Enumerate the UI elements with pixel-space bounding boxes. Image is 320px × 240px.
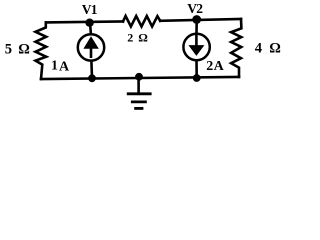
ground bar 3: [136, 107, 142, 110]
current source I1 arrow shaft: [90, 47, 93, 57]
junction dot ground node: [135, 73, 143, 81]
resistor 5 ohm (left vertical zigzag): [36, 22, 47, 79]
resistor 2 ohm (horizontal zigzag): [123, 16, 160, 27]
current source I1 circle: [78, 34, 104, 60]
svg-text:Ω: Ω: [18, 42, 30, 58]
wire top right segment to corner: [160, 19, 241, 21]
svg-text:A: A: [214, 59, 225, 74]
ground bar 2: [132, 101, 145, 104]
current source I2 circle: [183, 34, 209, 60]
current source I2 arrowhead (down): [188, 45, 204, 56]
current source I1 arrowhead (up): [83, 36, 98, 48]
svg-text:Ω: Ω: [269, 40, 281, 56]
svg-text:1: 1: [51, 59, 58, 74]
wire bottom: [41, 77, 239, 79]
svg-text:A: A: [59, 60, 70, 75]
svg-text:2: 2: [127, 31, 133, 45]
ground stem: [137, 77, 140, 94]
current source I2 arrow shaft: [195, 35, 198, 46]
wire top (V1 left segment to 2-ohm resistor): [46, 20, 123, 23]
node V2 dot: [192, 15, 201, 24]
svg-text:V2: V2: [187, 1, 203, 16]
wire V2 to source I2 top lead: [195, 20, 198, 34]
ground bar 1: [128, 92, 150, 95]
wire V1 to source I1 top lead: [89, 22, 93, 34]
resistor 4 ohm (right vertical zigzag): [231, 19, 241, 77]
wire source I1 bottom lead: [90, 61, 93, 79]
svg-text:5: 5: [5, 42, 12, 58]
junction dot bottom of I2: [193, 74, 201, 82]
wire source I2 bottom lead: [195, 60, 198, 78]
svg-text:4: 4: [255, 40, 262, 56]
svg-text:2: 2: [206, 59, 213, 74]
svg-text:Ω: Ω: [138, 31, 148, 45]
node V1 dot: [85, 19, 93, 27]
junction dot bottom of I1: [88, 74, 96, 82]
svg-text:V1: V1: [82, 2, 98, 17]
